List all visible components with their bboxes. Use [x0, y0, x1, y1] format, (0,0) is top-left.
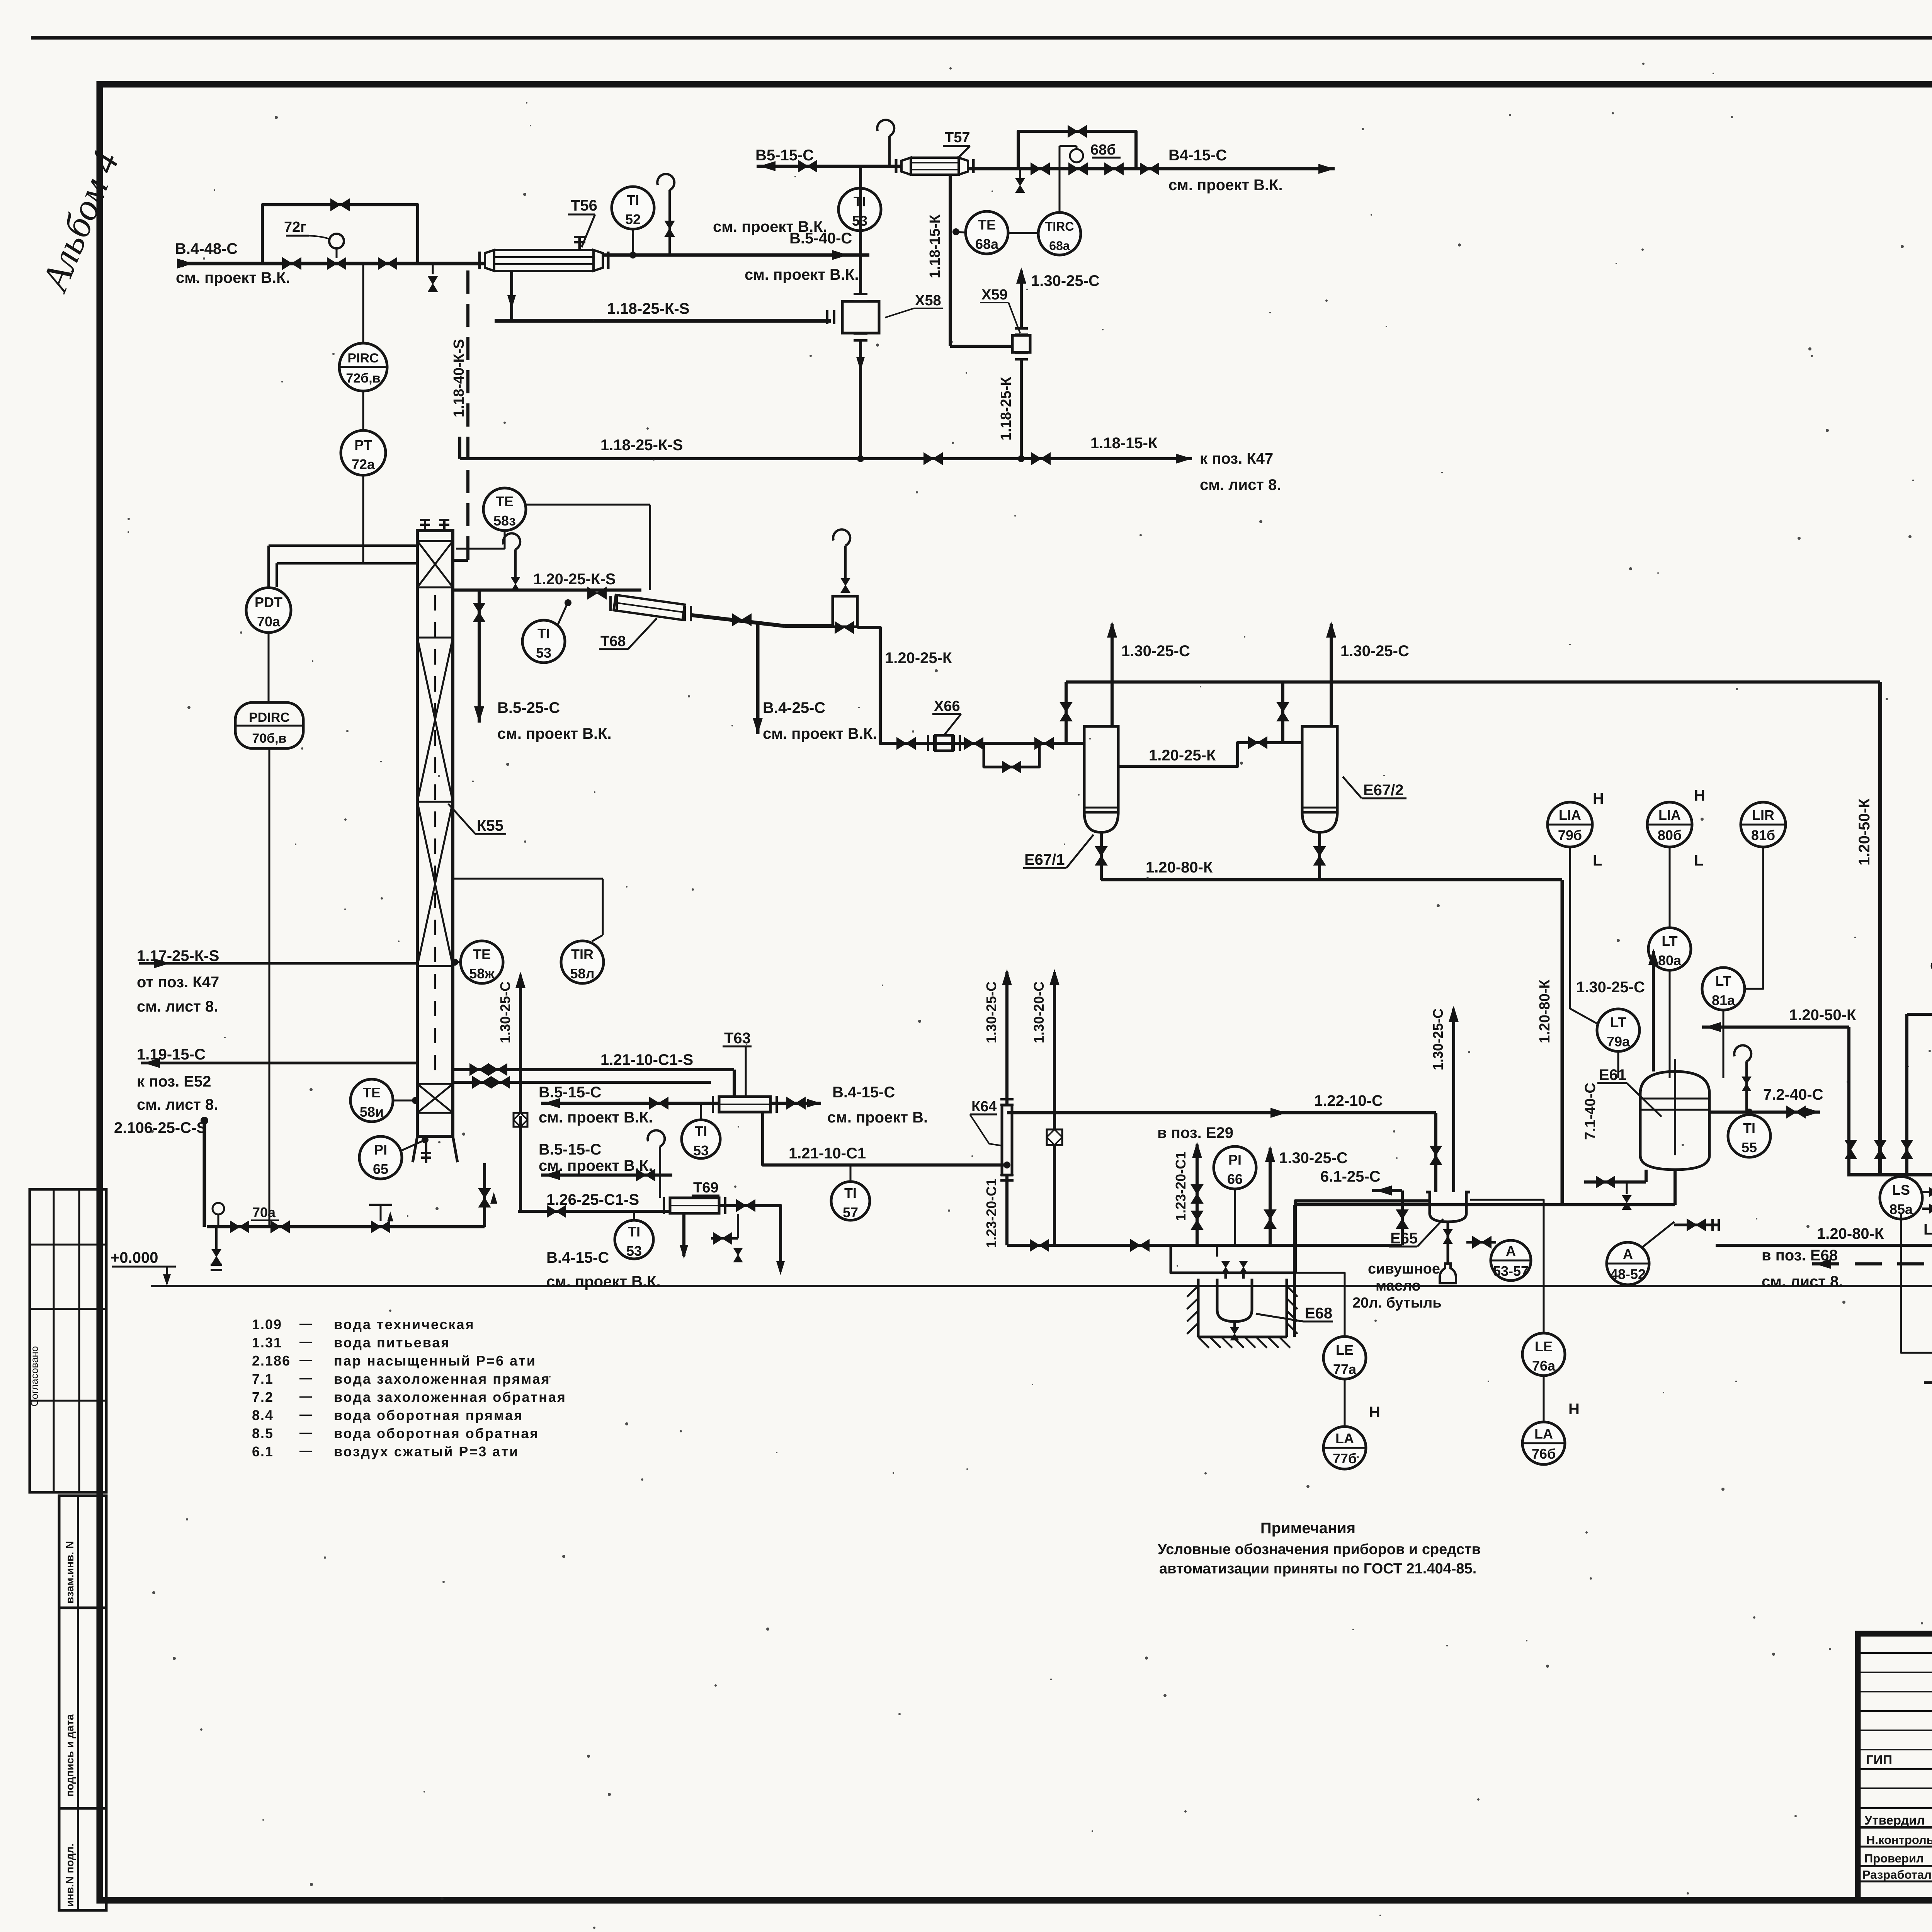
svg-text:52: 52 [625, 211, 641, 227]
vessel Е65 [1426, 1192, 1470, 1222]
svg-text:Н: Н [1694, 787, 1705, 804]
relay contacts [1901, 1214, 1932, 1383]
small drain valve under line [1016, 179, 1024, 192]
svg-text:вода захоложенная прямая: вода захоложенная прямая [334, 1371, 551, 1387]
ball check on riser [1047, 1129, 1062, 1145]
heat exchanger Т68 [614, 595, 685, 620]
wire TE to TIRC [1009, 232, 1037, 234]
svg-text:TI: TI [844, 1185, 857, 1201]
bottom manifold line [1007, 1244, 1402, 1247]
pipes into Е68 [1225, 1273, 1227, 1279]
wire LIA79б to LT79а [1570, 847, 1598, 1024]
svg-text:8.4: 8.4 [252, 1407, 274, 1423]
valves after X66 [964, 738, 983, 749]
column top nozzles [424, 521, 426, 531]
svg-text:В.4-25-С: В.4-25-С [763, 699, 825, 716]
wires LT into Е61 [1669, 971, 1671, 1078]
nozzle on Т56 [578, 238, 581, 250]
svg-text:6.1: 6.1 [252, 1444, 274, 1459]
svg-text:8.5: 8.5 [252, 1425, 274, 1441]
svg-text:ГИП: ГИП [1866, 1753, 1892, 1767]
instrument LIA 79б [1548, 802, 1592, 847]
svg-text:сивушное: сивушное [1368, 1261, 1440, 1277]
svg-text:1.23-20-С1: 1.23-20-С1 [1173, 1151, 1189, 1221]
svg-text:ТЕ: ТЕ [978, 217, 996, 233]
small valve under 7.1 line [1626, 1182, 1628, 1194]
pipe after Т56 to В.5-40-С outlet [603, 253, 869, 257]
svg-text:L: L [1694, 852, 1703, 869]
svg-text:76а: 76а [1532, 1358, 1556, 1374]
svg-text:Утвердил: Утвердил [1864, 1813, 1925, 1827]
svg-text:Е68: Е68 [1305, 1305, 1332, 1322]
instrument PI 66 [1214, 1146, 1256, 1189]
valve before Е67/2 [1248, 737, 1267, 748]
svg-text:см. проект В.К.: см. проект В.К. [1168, 177, 1283, 194]
svg-text:1.18-15-К: 1.18-15-К [927, 214, 943, 278]
instrument LE 76а [1522, 1333, 1565, 1376]
svg-text:Н.контроль: Н.контроль [1866, 1833, 1932, 1847]
svg-text:А: А [1623, 1246, 1633, 1262]
svg-text:Т56: Т56 [571, 197, 597, 214]
svg-text:1.20-25-К: 1.20-25-К [1149, 747, 1216, 764]
svg-text:1.30-25-С: 1.30-25-С [497, 981, 513, 1043]
valve after T57 1 [1031, 163, 1049, 175]
vessel Е61 [1640, 1071, 1709, 1170]
svg-text:1.17-25-К-S: 1.17-25-К-S [137, 947, 219, 964]
svg-text:1.30-25-С: 1.30-25-С [1576, 979, 1645, 996]
svg-text:53-57: 53-57 [1493, 1263, 1529, 1279]
svg-text:Х66: Х66 [934, 698, 960, 714]
sample cooler X59 [1012, 335, 1030, 352]
svg-text:вода техническая: вода техническая [334, 1316, 475, 1332]
svg-text:см. лист 8.: см. лист 8. [1200, 476, 1281, 493]
riser Е67/1 vent with arrow [1111, 624, 1114, 726]
svg-text:1.20-50-К: 1.20-50-К [1856, 798, 1873, 866]
svg-text:ТIRС: ТIRС [1045, 219, 1074, 233]
vent riser from Е61 with up arrow [1652, 951, 1655, 1071]
svg-text:81б: 81б [1751, 827, 1775, 843]
pipe after Т69 to sewer [719, 1206, 781, 1271]
instrument TIR 58л [561, 941, 604, 983]
drain valve with cap [215, 1227, 218, 1252]
svg-text:1.19-15-С: 1.19-15-С [137, 1046, 206, 1063]
instrument LIR 81б [1741, 802, 1786, 847]
svg-text:ТЕ: ТЕ [496, 493, 514, 509]
svg-text:ТЕ: ТЕ [473, 946, 491, 962]
manifold valves above pit [1216, 1245, 1218, 1257]
valve right of Е65 [1466, 1241, 1496, 1244]
svg-text:—: — [299, 1389, 312, 1403]
svg-text:LE: LE [1535, 1338, 1553, 1354]
svg-text:48-52: 48-52 [1610, 1266, 1646, 1282]
svg-text:вода оборотная прямая: вода оборотная прямая [334, 1407, 523, 1423]
svg-text:57: 57 [843, 1204, 858, 1220]
svg-text:1.18-15-К: 1.18-15-К [1090, 435, 1158, 452]
riser 1.30-25-С right of PI66 [1269, 1148, 1272, 1245]
svg-text:1.09: 1.09 [252, 1316, 282, 1332]
svg-text:К55: К55 [477, 817, 503, 834]
svg-text:—: — [299, 1335, 312, 1349]
instrument TI 55 [1728, 1115, 1770, 1157]
svg-text:LS: LS [1892, 1182, 1910, 1198]
pipe X58 down to header 1.18-15-K [859, 340, 862, 459]
svg-text:79а: 79а [1607, 1034, 1630, 1049]
svg-text:Х59: Х59 [981, 287, 1008, 303]
wire TE58з to line [526, 504, 650, 506]
pipe into Е65 from 1.22 line [1434, 1113, 1437, 1192]
svg-text:масло: масло [1376, 1278, 1421, 1294]
pipe to X66 and Е67 inlet [857, 628, 1084, 743]
svg-text:Е67/1: Е67/1 [1024, 851, 1065, 868]
svg-text:76б: 76б [1532, 1446, 1556, 1462]
instrument PI 65 [359, 1136, 402, 1179]
riser valve to Е67/2 inlet [1281, 682, 1284, 743]
svg-text:В.5-15-С: В.5-15-С [539, 1084, 601, 1101]
instrument line to PIRC [362, 264, 364, 343]
valve on header 1 [924, 453, 942, 464]
svg-text:1.30-25-С: 1.30-25-С [1031, 272, 1100, 289]
svg-text:1.18-40-К-S: 1.18-40-К-S [451, 339, 467, 417]
instrument PDT 70а [267, 546, 270, 587]
sample cooler X58 [842, 301, 879, 333]
valve pair under Т69 [737, 1214, 739, 1238]
svg-text:см. проект В.К.: см. проект В.К. [713, 218, 827, 235]
svg-text:—: — [299, 1407, 312, 1421]
left margin box Взам.инв.N [59, 1496, 106, 1608]
svg-text:В.5-25-С: В.5-25-С [497, 699, 560, 716]
svg-text:PDT: PDT [255, 594, 282, 610]
svg-text:1.18-25-К-S: 1.18-25-К-S [600, 437, 683, 454]
svg-text:LIR: LIR [1752, 807, 1774, 823]
riser 1.30-25-С into Е65 [1452, 1009, 1455, 1192]
instrument TI 53 at Т69 [615, 1220, 653, 1259]
pipe after Т68 [692, 615, 784, 626]
riser в поз. Е29 [1196, 1145, 1199, 1245]
svg-text:7.2: 7.2 [252, 1389, 274, 1405]
svg-text:55: 55 [1742, 1139, 1757, 1155]
svg-text:Согласовано: Согласовано [29, 1346, 40, 1406]
svg-text:вода оборотная обратная: вода оборотная обратная [334, 1425, 539, 1441]
svg-text:РТ: РТ [354, 437, 372, 453]
svg-text:Е61: Е61 [1599, 1066, 1626, 1083]
wire LIR81б to LT81а [1745, 847, 1763, 989]
instrument LA 77б [1323, 1427, 1366, 1469]
alarm instrument А 53-57 [1491, 1240, 1531, 1281]
svg-text:L: L [1923, 1221, 1932, 1238]
pipe Е67 bottoms 1.20-80-К [1100, 832, 1103, 880]
instrument LT 81а [1702, 968, 1745, 1010]
svg-text:ТIR: ТIR [571, 946, 594, 962]
valve on 68б bypass [1068, 126, 1087, 137]
wire PDT to PDIRC [268, 633, 270, 702]
heat exchanger Т57 sample cooler [911, 158, 959, 175]
pit for Е68 [1197, 1279, 1200, 1337]
svg-text:1.23-20-С1: 1.23-20-С1 [983, 1179, 999, 1248]
pipe В.5-25-С branch down [478, 590, 481, 723]
header 1.30-25-С line [1066, 680, 1880, 684]
riser Е67/2 vent with arrow [1330, 624, 1333, 726]
wire TIRC to valve 68б [1059, 146, 1061, 211]
vent hook on 1.20 line [514, 549, 517, 578]
svg-text:7.1: 7.1 [252, 1371, 274, 1387]
dashed capillary 1.18-40-K-S [466, 270, 469, 553]
svg-text:Т68: Т68 [600, 633, 626, 650]
svg-text:70б,в: 70б,в [252, 731, 286, 746]
svg-text:TI: TI [627, 192, 639, 208]
valve on bypass [331, 199, 349, 211]
title block outer [1858, 1634, 1932, 1900]
svg-text:—: — [299, 1316, 312, 1330]
instrument TI 52 [612, 187, 654, 229]
vessel Е67/1 [1084, 726, 1118, 812]
sample hook at В5 line [888, 136, 891, 166]
svg-text:1.26-25-С1-S: 1.26-25-С1-S [546, 1191, 639, 1208]
svg-text:инв.N подл.: инв.N подл. [64, 1844, 76, 1907]
pipe Е65 overflow to pit [1295, 1201, 1430, 1273]
riser 1.30-20-С [1053, 972, 1056, 1245]
svg-text:см. проект В.К.: см. проект В.К. [546, 1273, 661, 1290]
valve after T57 3 [1140, 163, 1159, 175]
svg-text:1.20-80-К: 1.20-80-К [1817, 1225, 1884, 1242]
instrument PDIRC 70б,в [235, 702, 303, 748]
svg-text:2.186: 2.186 [252, 1353, 291, 1369]
pipe 1.20-80-К to pump [1716, 1244, 1932, 1247]
svg-text:1.22-10-С: 1.22-10-С [1314, 1092, 1383, 1109]
svg-text:66: 66 [1227, 1171, 1243, 1187]
svg-text:20л. бутыль: 20л. бутыль [1352, 1295, 1442, 1311]
svg-text:PDIRC: PDIRC [249, 710, 290, 725]
instrument TI 57 on 1.21 line [831, 1182, 870, 1220]
svg-text:в поз. Е29: в поз. Е29 [1157, 1124, 1233, 1141]
valves on manifold [1030, 1240, 1049, 1251]
manifold of product valves [1847, 1173, 1932, 1177]
valve after T68 [733, 614, 751, 626]
svg-text:72б,в: 72б,в [346, 371, 380, 386]
heat exchanger Т69 [670, 1198, 719, 1213]
svg-text:77б: 77б [1333, 1451, 1357, 1466]
pipe X59 down to header [1020, 359, 1023, 459]
wire LE76а to Е65 [1470, 1200, 1544, 1333]
hook at Т69 [659, 1146, 661, 1198]
svg-text:см. лист 8.: см. лист 8. [1762, 1273, 1843, 1290]
svg-text:1.20-25-К: 1.20-25-К [885, 650, 952, 667]
svg-text:LA: LA [1335, 1430, 1354, 1446]
svg-text:58л: 58л [570, 966, 595, 981]
svg-text:В.4-15-С: В.4-15-С [546, 1249, 609, 1266]
valved vent line near А 48-52 [1674, 1224, 1718, 1226]
riser valve to Е67/1 inlet [1065, 682, 1068, 743]
left margin box Подпись и дата [59, 1608, 106, 1808]
instrument TI 53 reflux [522, 620, 565, 663]
svg-text:1.21-10-С1-S: 1.21-10-С1-S [600, 1051, 693, 1068]
svg-text:А: А [1506, 1243, 1516, 1259]
instrument TE 58и [350, 1079, 393, 1122]
svg-text:к поз. К47: к поз. К47 [1200, 450, 1273, 467]
svg-text:Е67/2: Е67/2 [1363, 782, 1404, 799]
svg-text:к поз. Е52: к поз. Е52 [137, 1073, 211, 1090]
svg-text:53: 53 [626, 1243, 642, 1259]
svg-text:взам.инв. N: взам.инв. N [64, 1541, 76, 1604]
instrument LT 80а [1648, 928, 1691, 970]
pipe Т63 to 1.21 line [762, 1112, 764, 1113]
svg-text:подпись и дата: подпись и дата [64, 1714, 76, 1797]
svg-text:—: — [299, 1425, 312, 1439]
svg-text:от поз. К47: от поз. К47 [137, 974, 219, 991]
instrument TE 68а [966, 211, 1008, 254]
pipe 1.22-10-С [1007, 1111, 1436, 1114]
instrument PIRC 72б,в [339, 343, 387, 391]
svg-text:6.1-25-С: 6.1-25-С [1320, 1168, 1381, 1185]
sample point with hook on outlet line [668, 190, 671, 255]
svg-text:+0.000: +0.000 [111, 1249, 158, 1266]
svg-text:В.4-48-С: В.4-48-С [175, 240, 238, 257]
svg-text:1.18-25-К: 1.18-25-К [998, 376, 1014, 440]
svg-text:72а: 72а [352, 456, 375, 472]
svg-text:LE: LE [1336, 1342, 1354, 1358]
instrument LA 76б [1522, 1422, 1565, 1464]
pipe X58 vertical from В5 line [859, 166, 862, 294]
svg-text:53: 53 [536, 645, 551, 661]
valve on feed line 2 [378, 258, 397, 269]
valve on 1.26 drop [484, 1197, 486, 1199]
svg-text:К64: К64 [971, 1099, 997, 1115]
svg-text:PI: PI [1228, 1152, 1242, 1168]
reflux drum small vessel [833, 596, 857, 627]
left margin approval table [30, 1189, 106, 1492]
svg-text:см. проект В.К.: см. проект В.К. [497, 725, 612, 742]
svg-text:В4-15-С: В4-15-С [1168, 147, 1227, 164]
valve before Т68 [588, 587, 606, 599]
svg-text:PIRC: PIRC [347, 351, 379, 366]
instrument TI 53 at Т63 [682, 1120, 720, 1158]
svg-text:70а: 70а [257, 614, 281, 629]
svg-text:см. проект В.: см. проект В. [827, 1109, 928, 1126]
pipe 7.2-40-С from Е61 [1709, 1111, 1820, 1114]
pipe header 1.18-15-К [458, 437, 461, 459]
column bottom skirt [413, 1136, 417, 1162]
pipe to X59 [950, 345, 1012, 348]
valve after T57 2 [1105, 163, 1123, 175]
svg-text:1.30-25-С: 1.30-25-С [983, 981, 999, 1043]
svg-text:80а: 80а [1658, 952, 1682, 968]
svg-text:1.20-50-К: 1.20-50-К [1789, 1007, 1856, 1024]
svg-text:1.30-20-С: 1.30-20-С [1031, 981, 1047, 1043]
svg-text:1.30-25-С: 1.30-25-С [1340, 643, 1409, 660]
column К55 shell [417, 531, 453, 1136]
pipe second tap [453, 1081, 711, 1084]
bypass loop over control valve 72г [262, 205, 418, 264]
wire LE77а to Е68 [1287, 1273, 1345, 1337]
rotameter К64 [1002, 1105, 1012, 1175]
instrument TE 58з [483, 488, 526, 531]
svg-text:автоматизации приняты по ГОСТ: автоматизации приняты по ГОСТ 21.404-85. [1159, 1561, 1476, 1577]
svg-text:1.31: 1.31 [252, 1335, 282, 1350]
impulse line PDT tap upper [269, 544, 417, 547]
vessel Е68 in pit [1217, 1279, 1252, 1321]
impulse line PDT tap lower [277, 562, 417, 565]
svg-text:в поз. Е68: в поз. Е68 [1762, 1247, 1838, 1264]
svg-text:LIA: LIA [1559, 807, 1581, 823]
svg-text:В.5-15-С: В.5-15-С [539, 1141, 601, 1158]
svg-text:см. проект В.К.: см. проект В.К. [745, 266, 859, 283]
pipe 1.21-10-С1 from Т63 [763, 1113, 1007, 1165]
svg-text:пар насыщенный Р=6 ати: пар насыщенный Р=6 ати [334, 1353, 536, 1369]
title block signature grid [1858, 1652, 1932, 1654]
svg-text:TI: TI [695, 1123, 707, 1139]
instrument LT 79а [1597, 1009, 1639, 1051]
svg-text:—: — [299, 1371, 312, 1385]
svg-text:TI: TI [537, 626, 550, 641]
svg-text:1.21-10-С1: 1.21-10-С1 [789, 1145, 866, 1162]
svg-text:68б: 68б [1090, 142, 1116, 158]
svg-text:см. проект В.К.: см. проект В.К. [539, 1109, 653, 1126]
bypass over 68б [1018, 131, 1136, 169]
pipe Т56 bottom outlet down to line 1.18-25-K-S [510, 271, 513, 321]
manifold step to pit [1171, 1245, 1293, 1273]
svg-text:Т69: Т69 [693, 1180, 718, 1196]
heat exchanger Т63 [719, 1097, 770, 1112]
wire PIRC to PT [362, 391, 364, 430]
pipe К64 down leg 1.23-20-С1 [1005, 1175, 1009, 1245]
valve under reflux vessel [835, 622, 854, 633]
svg-text:LT: LT [1715, 973, 1731, 989]
instrument PT 72а [341, 430, 386, 475]
column bottom manifold [207, 1225, 485, 1228]
pipe 1.30-25-С riser mid [519, 975, 522, 1116]
valve on feed line 1 [282, 258, 301, 269]
instrument LIA 80б [1647, 802, 1692, 847]
svg-text:В5-15-С: В5-15-С [755, 147, 814, 164]
svg-text:2.106-25-С-S: 2.106-25-С-S [114, 1119, 207, 1136]
left margin box Инв.N подл. [59, 1808, 106, 1910]
pipe X59 riser 1.30-25-С with up arrow [1020, 270, 1023, 328]
instrument TIRC 68а [1038, 213, 1081, 255]
valve on sample riser [665, 221, 674, 236]
pipe 1.20-80-К vertical to Е68 area [1561, 880, 1564, 1205]
instrument TI 53 at X58 [838, 188, 881, 231]
svg-text:53: 53 [693, 1143, 709, 1158]
svg-text:1.20-80-К: 1.20-80-К [1146, 859, 1213, 876]
svg-text:LIA: LIA [1658, 807, 1681, 823]
svg-text:1.18-25-К-S: 1.18-25-К-S [607, 300, 689, 317]
bypass under inlet line [984, 743, 1039, 767]
svg-text:68а: 68а [975, 236, 999, 252]
svg-text:см. проект В.К.: см. проект В.К. [763, 725, 877, 742]
svg-text:77а: 77а [1333, 1361, 1357, 1377]
pipe after Т63 В.4-15-С [770, 1102, 821, 1105]
dashed line в поз. Е68 [1812, 1262, 1932, 1265]
pressure reducer on manifold [371, 1221, 390, 1233]
svg-text:В.4-15-С: В.4-15-С [832, 1084, 895, 1101]
valve on В5-15-С [798, 160, 817, 172]
svg-text:спирт ректификат: спирт ректификат [1930, 956, 1932, 973]
svg-text:65: 65 [373, 1161, 388, 1177]
svg-text:Н: Н [1369, 1404, 1380, 1421]
wire TIR bracket [453, 878, 603, 880]
hook on 7.2 line [1745, 1061, 1748, 1112]
small valve under feed tee [432, 264, 434, 274]
svg-text:Т57: Т57 [945, 129, 970, 146]
ground elevation line [151, 1285, 1932, 1287]
heat exchanger Т56 [494, 250, 594, 271]
svg-text:TI: TI [1743, 1120, 1755, 1136]
svg-text:1.30-25-С: 1.30-25-С [1430, 1009, 1446, 1070]
svg-text:воздух сжатый Р=3 ати: воздух сжатый Р=3 ати [334, 1444, 519, 1459]
svg-text:TI: TI [628, 1224, 640, 1240]
svg-text:1.20-25-К-S: 1.20-25-К-S [533, 571, 616, 588]
svg-text:Е65: Е65 [1390, 1230, 1418, 1247]
pipe Е67/1 to Е67/2 [1118, 743, 1302, 766]
